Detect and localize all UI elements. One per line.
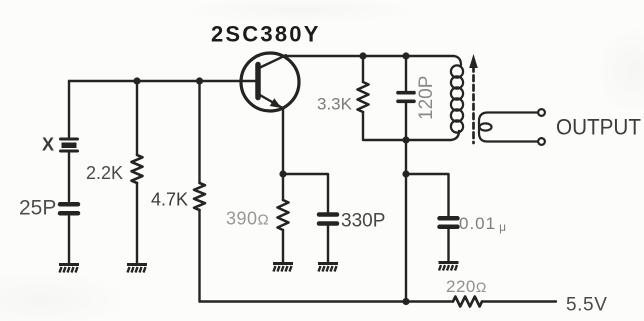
resistor R6 220ohm — [453, 297, 482, 307]
svg-text:120P: 120P — [416, 76, 437, 120]
crystal X1 — [61, 139, 78, 151]
ground 330P branch — [318, 264, 338, 272]
wire crystal to 25P — [68, 152, 70, 201]
svg-text:220Ω: 220Ω — [446, 277, 487, 296]
node base-2.2K — [133, 77, 140, 84]
wire tank bottom — [363, 112, 459, 140]
wire 390 to ground — [282, 230, 284, 262]
transformer T1 secondary — [479, 113, 541, 142]
node emitter junction — [279, 170, 286, 177]
node tank bottom — [402, 136, 409, 143]
wire base rail — [69, 80, 256, 82]
capacitor C4 0.01uF — [440, 218, 458, 227]
capacitor C2 330P — [319, 215, 337, 224]
output terminal top — [538, 109, 545, 116]
wire 2.2K to ground — [136, 183, 138, 263]
wire 2.2K top — [136, 81, 138, 155]
capacitor C3 120P — [398, 93, 414, 102]
transformer T1 primary — [451, 56, 463, 133]
wire emitter node to 330P — [283, 174, 328, 212]
output terminal bottom — [538, 138, 545, 145]
svg-text:2SC380Y: 2SC380Y — [211, 22, 321, 47]
svg-text:390Ω: 390Ω — [226, 209, 269, 229]
wire 3.3K branch — [362, 56, 364, 82]
capacitor C1 25P — [60, 204, 78, 213]
node 0.01uF tap — [402, 170, 409, 177]
node bottom rail — [402, 298, 409, 305]
ground crystal branch — [59, 265, 79, 273]
wire bottom supply rail — [200, 300, 557, 302]
ground 0.01uF branch — [439, 263, 459, 271]
svg-text:25P: 25P — [19, 197, 56, 220]
resistor R2 4.7K — [194, 183, 205, 210]
svg-text:4.7K: 4.7K — [151, 190, 188, 210]
resistor R4 3.3K — [358, 82, 369, 112]
resistor R1 2.2K — [132, 155, 143, 183]
wire 0.01uF to ground — [447, 229, 449, 261]
node base-4.7K — [196, 77, 203, 84]
resistor R3 390ohm — [278, 200, 289, 230]
wire emitter node to 390 — [282, 174, 284, 200]
wire node to 0.01uF — [406, 174, 449, 216]
wire 4.7K to bottom rail — [198, 210, 200, 302]
wire 25P to ground — [68, 216, 70, 263]
svg-text:5.5V: 5.5V — [566, 295, 608, 316]
transistor Q1 2SC380Y — [241, 53, 299, 111]
node collector-120P — [402, 52, 409, 59]
wire 120P branch — [405, 56, 407, 302]
ground 390 branch — [273, 264, 293, 272]
svg-text:X: X — [42, 135, 54, 155]
wire 330P to ground — [327, 226, 329, 262]
transformer core tuning arrow — [469, 54, 478, 143]
wire 4.7K top — [198, 81, 200, 183]
wire collector rail — [284, 55, 454, 57]
ground 2.2K branch — [127, 265, 147, 273]
node collector-3.3K — [359, 52, 366, 59]
wire emitter down — [282, 110, 284, 174]
svg-text:OUTPUT: OUTPUT — [556, 115, 641, 140]
svg-text:330P: 330P — [341, 211, 385, 232]
svg-text:2.2K: 2.2K — [86, 163, 123, 183]
svg-text:3.3K: 3.3K — [317, 95, 353, 114]
wire crystal top — [68, 81, 70, 137]
